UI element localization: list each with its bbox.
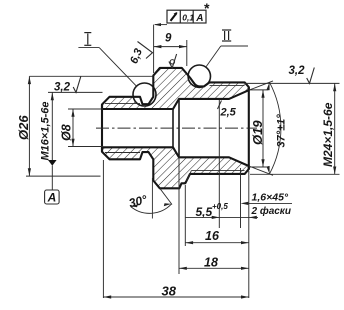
detail label I xyxy=(84,33,91,46)
38 dimension xyxy=(103,296,248,298)
thread minor line M24 top xyxy=(210,85,245,87)
16 dimension xyxy=(185,242,249,244)
svg-text:3,2: 3,2 xyxy=(54,82,71,94)
svg-text:3,2: 3,2 xyxy=(289,65,306,77)
svg-text:16: 16 xyxy=(205,229,220,243)
svg-text:38: 38 xyxy=(162,284,177,299)
svg-text:M16×1,5-6e: M16×1,5-6e xyxy=(40,101,52,160)
37 degree cone extension lines xyxy=(249,81,273,90)
datum A frame xyxy=(45,190,60,204)
svg-text:9: 9 xyxy=(165,33,172,45)
svg-text:2,5: 2,5 xyxy=(220,107,237,119)
30 degree label xyxy=(151,178,153,219)
detail circle II xyxy=(188,65,210,87)
thread minor line M24 bottom xyxy=(191,170,244,172)
Ø19 dimension xyxy=(250,90,269,167)
bore cone edge line left xyxy=(172,109,174,147)
svg-text:2 фаски: 2 фаски xyxy=(251,205,292,217)
svg-text:Ø26: Ø26 xyxy=(16,115,31,140)
thread minor line M16 bottom xyxy=(105,152,140,154)
37 degree arc xyxy=(270,82,281,174)
svg-text:*: * xyxy=(204,0,210,16)
leader II xyxy=(221,45,248,47)
9 dimension xyxy=(154,25,187,73)
feature control frame xyxy=(167,10,206,23)
part outline upper xyxy=(102,68,249,109)
svg-text:A: A xyxy=(47,191,57,205)
M24 dimension xyxy=(245,83,340,174)
Ø8 dimension xyxy=(68,109,103,147)
Ø26 dimension line xyxy=(26,76,153,176)
detail circle I xyxy=(133,83,156,106)
hatched material section lower half xyxy=(102,147,249,188)
part outline lower xyxy=(102,147,249,188)
svg-text:Ø19: Ø19 xyxy=(250,120,265,145)
5,5+0,5 dimension xyxy=(186,216,259,218)
runout symbol xyxy=(171,13,177,21)
extension verticals bottom xyxy=(103,100,248,298)
svg-text:+0,5: +0,5 xyxy=(212,202,228,211)
svg-text:37°±1°: 37°±1° xyxy=(275,114,287,148)
hatched material section upper half xyxy=(102,68,249,109)
centerline xyxy=(96,127,257,129)
svg-text:A: A xyxy=(195,13,203,24)
feature control frame leader xyxy=(155,24,167,26)
svg-text:18: 18 xyxy=(204,256,218,270)
2,5 label xyxy=(218,101,222,110)
svg-text:0,1: 0,1 xyxy=(182,12,194,22)
left end face xyxy=(101,105,103,152)
thread minor line M16 top xyxy=(105,103,140,105)
roughness symbol with circle on collar top xyxy=(169,54,177,68)
svg-text:5,5: 5,5 xyxy=(196,205,213,219)
bore cone edge line right xyxy=(178,99,180,157)
detail label II xyxy=(222,30,231,41)
svg-text:M24×1,5-6e: M24×1,5-6e xyxy=(321,102,335,167)
thread runout cone bottom xyxy=(187,171,192,181)
svg-text:1,6×45°: 1,6×45° xyxy=(252,192,289,204)
roughness 6,3 on collar face xyxy=(138,42,153,59)
18 dimension xyxy=(179,267,249,269)
right end face xyxy=(248,87,250,169)
leader I xyxy=(78,47,99,49)
svg-text:Ø8: Ø8 xyxy=(60,124,74,141)
datum triangle xyxy=(48,160,57,166)
M16 dimension line with datum A xyxy=(48,92,103,190)
